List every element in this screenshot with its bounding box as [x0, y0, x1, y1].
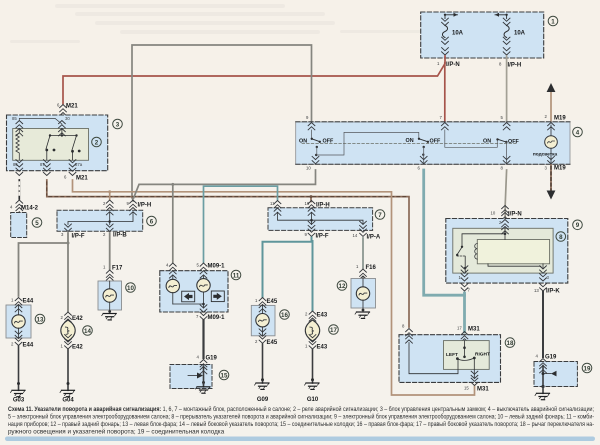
block 6 internal wiring [68, 212, 133, 225]
node G19 left label [197, 355, 218, 374]
svg-text:Схема 11. Указатели поворота и: Схема 11. Указатели поворота и аварийная… [8, 405, 594, 413]
caption text [8, 405, 594, 436]
svg-text:9: 9 [576, 222, 580, 229]
block 18 pin 8 [402, 324, 412, 344]
wire tan M19 with up arrow (power feed) [545, 83, 567, 122]
lamp E44 [12, 305, 25, 338]
svg-text:E45: E45 [267, 340, 278, 346]
svg-text:19: 19 [584, 365, 591, 372]
svg-text:I/P-B: I/P-B [113, 233, 127, 239]
hazard switch mechanical dashed link [302, 143, 518, 145]
item circle 10 [126, 283, 136, 293]
block 6 bottom pins I/P-F I/P-B [61, 224, 127, 240]
block 19 joint connector dashed box [534, 362, 577, 387]
block 18 turn signal stalk dashed box [399, 335, 501, 383]
node M19 bottom with down arrow [545, 165, 567, 200]
lamp in block 12 [356, 277, 369, 312]
side turn lamp E43 (item 17) [305, 320, 319, 341]
svg-text:E44: E44 [23, 299, 34, 305]
svg-text:10: 10 [305, 201, 310, 206]
wire black cluster ground to G19 [202, 320, 204, 358]
item circle 8 [556, 232, 566, 242]
item circle 15 [219, 370, 229, 380]
lamp block 12 F16 [351, 279, 376, 309]
item circle 6 [147, 216, 157, 226]
node F16 [356, 264, 377, 283]
left arrow icon box [182, 291, 195, 302]
wire teal thick: hazard sw pin6 down, right, to M31 junction [424, 170, 465, 332]
rear lamp block 13 E44 [6, 305, 31, 338]
svg-text:10: 10 [491, 211, 496, 216]
block 15 joint connector dashed box [170, 365, 212, 389]
svg-text:2: 2 [95, 139, 99, 146]
block 7 montage block connector dashed box [268, 208, 373, 231]
node G19 right label [536, 354, 558, 373]
wire gray: top run from hazard sw pin 9 to montage block I/P-H pin [132, 45, 312, 201]
svg-text:I/P-H: I/P-H [138, 203, 152, 209]
block 7 top pins [270, 201, 330, 216]
svg-text:M19: M19 [554, 166, 566, 172]
svg-text:I/P-A: I/P-A [367, 235, 381, 241]
svg-text:нация приборов; 12 – правый за: нация приборов; 12 – правый задний фонар… [8, 420, 594, 428]
block 19 internal tap [541, 366, 556, 389]
hazard switch illumination lamp [533, 125, 558, 163]
svg-text:I/P-K: I/P-K [546, 289, 560, 295]
cluster right turn indicator lamp [197, 276, 210, 308]
faint bleed-through smudge top-left [10, 4, 430, 43]
svg-text:M21: M21 [66, 104, 78, 110]
svg-text:10A: 10A [452, 31, 464, 37]
block 9 body control module dashed box [446, 219, 568, 284]
block 6 montage block connector dashed box [57, 210, 143, 231]
svg-text:4: 4 [576, 129, 580, 136]
svg-text:G19: G19 [206, 356, 218, 362]
node E43 bottom [305, 335, 328, 351]
node M31 bottom [464, 371, 489, 392]
svg-text:13: 13 [534, 288, 539, 293]
svg-text:RIGHT: RIGHT [475, 352, 490, 358]
block 9 bottom pins [459, 266, 561, 295]
svg-text:E44: E44 [23, 343, 34, 349]
svg-text:M21: M21 [76, 176, 88, 182]
svg-text:I/P-F: I/P-F [72, 234, 85, 240]
svg-text:12: 12 [339, 283, 346, 290]
node M21 top label [57, 103, 78, 120]
svg-text:86: 86 [13, 162, 18, 167]
fuse F2 10A [495, 13, 526, 55]
svg-text:I/P-H: I/P-H [316, 203, 330, 209]
item circle 16 [280, 310, 290, 320]
svg-text:7: 7 [378, 212, 382, 219]
LEFT RIGHT labels [446, 352, 490, 359]
svg-text:G19: G19 [545, 355, 557, 361]
item circle 14 [83, 326, 93, 336]
svg-text:M09-1: M09-1 [208, 264, 226, 270]
wire black E45 to ground G09 [255, 344, 270, 403]
wire teal cluster right indicator to stalk block 7 pin 11 [204, 186, 278, 262]
svg-text:F17: F17 [112, 266, 123, 272]
side turn lamp E42 (item 14) [61, 320, 75, 341]
item circle 7 [375, 210, 385, 220]
svg-text:18: 18 [507, 340, 514, 347]
node E43 top [305, 311, 328, 325]
node E44 top [11, 298, 34, 312]
svg-text:G09: G09 [257, 397, 269, 403]
svg-text:E45: E45 [267, 299, 278, 305]
block 5 connector dashed box [11, 213, 27, 238]
bottom blue rule [5, 437, 595, 442]
node M14-2 label [10, 200, 39, 215]
node E44 bottom [11, 331, 34, 348]
svg-text:ON: ON [406, 138, 414, 144]
block 8 coil on IC left [475, 244, 478, 260]
block 15 internal tap [188, 366, 205, 384]
svg-text:I/P-H: I/P-H [508, 63, 522, 69]
svg-text:M14-2: M14-2 [21, 206, 39, 212]
block 18 inner switch box [444, 341, 490, 370]
svg-text:30: 30 [65, 116, 70, 121]
relay coil [16, 129, 19, 161]
node E42 bottom [61, 335, 84, 351]
rear lamp block 10 F17 lamp [98, 281, 122, 310]
node F17 [103, 265, 123, 285]
svg-text:15: 15 [221, 372, 228, 379]
svg-text:87a: 87a [75, 162, 83, 167]
hazard switch top pins [306, 115, 554, 130]
svg-text:ружного освещения и указателей: ружного освещения и указателей поворота;… [8, 428, 225, 436]
block 8 internal wiring and switch [457, 228, 543, 272]
svg-text:G03: G03 [13, 398, 25, 404]
wire teal-gray I/P-A down to F16 [362, 238, 364, 268]
right arrow icon box [211, 291, 224, 302]
cluster left turn indicator lamp [166, 276, 179, 304]
svg-text:14: 14 [353, 233, 358, 238]
svg-text:6: 6 [150, 218, 154, 225]
svg-text:M09-1: M09-1 [208, 315, 226, 321]
relay contacts [46, 129, 77, 161]
relay K1 (item 2) inner box [13, 129, 89, 161]
svg-text:85: 85 [12, 116, 17, 121]
svg-text:87: 87 [40, 162, 45, 167]
svg-text:I/P-N: I/P-N [446, 62, 460, 68]
svg-text:1: 1 [551, 18, 555, 25]
svg-text:OFF: OFF [430, 139, 441, 145]
svg-text:8: 8 [559, 234, 563, 241]
block 7 internal wiring [278, 213, 364, 225]
item circle 9 [573, 220, 583, 230]
svg-text:LEFT: LEFT [446, 352, 458, 358]
svg-text:16: 16 [281, 312, 288, 319]
item circle 5 [32, 218, 42, 228]
svg-text:13: 13 [37, 316, 44, 323]
hazard switch contacts sw1 [299, 130, 419, 156]
node E45 bottom [255, 329, 278, 346]
svg-text:14: 14 [84, 328, 91, 335]
fuse box U1 (montage block, item 1) [421, 12, 544, 58]
svg-text:5: 5 [35, 220, 39, 227]
wire gray hazard sw pin10 to cluster and montage I/P-H [134, 170, 316, 262]
node I/P-H fuse output label [499, 62, 521, 69]
wire gray: fuse F2 down to hazard switch pin 5 [506, 56, 508, 122]
hazard switch bottom pins [306, 156, 554, 170]
svg-text:5 – электронный блок управлени: 5 – электронный блок управления электроо… [8, 413, 594, 421]
cluster internal ground bus [173, 303, 204, 305]
svg-text:I/P-N: I/P-N [508, 212, 522, 218]
svg-text:10: 10 [306, 166, 311, 171]
relay pins top chevrons [12, 116, 70, 136]
svg-text:E43: E43 [317, 313, 328, 319]
item circle 12 [337, 281, 347, 291]
svg-text:G04: G04 [62, 398, 74, 404]
wire black I/P-K down to G19 connector [542, 292, 544, 357]
svg-text:M31: M31 [477, 387, 489, 393]
wire gray I/P-F to rear lamp E44 and side lamp E42 [19, 233, 69, 311]
block 9 top pin 2 [499, 220, 508, 234]
svg-text:17: 17 [330, 327, 337, 334]
ground under block 12 [355, 309, 370, 319]
svg-text:3: 3 [116, 121, 120, 128]
item circle 13 [35, 314, 45, 324]
relay pins bottom chevrons [13, 160, 83, 176]
svg-text:E42: E42 [72, 345, 83, 351]
item circle 18 [505, 338, 515, 348]
wire gray hazard sw pin8 down to block 9 I/P-N [505, 170, 506, 218]
svg-text:ON: ON [483, 138, 491, 144]
ground under block 19 [535, 387, 550, 400]
svg-text:10A: 10A [514, 31, 526, 37]
svg-text:10: 10 [127, 285, 134, 292]
node I/P-N fuse output label [437, 61, 460, 68]
wire gray I/P-B to F17 [109, 233, 111, 269]
svg-text:M31: M31 [468, 327, 480, 333]
svg-text:11: 11 [270, 201, 275, 206]
wire tan M21: relay to turn-signal stalk run [73, 180, 475, 395]
block 8 flasher unit inner box [453, 228, 553, 273]
lamp block 16 E45 [251, 305, 275, 335]
svg-text:ON: ON [299, 139, 307, 145]
block 3: central locking control unit, dashed box [7, 115, 108, 171]
svg-text:F16: F16 [366, 265, 377, 271]
wire black E44 to ground G03 [11, 346, 26, 404]
item circle 1 [548, 16, 558, 26]
block 8 IC chip [477, 240, 549, 264]
item circle 4 [573, 127, 583, 137]
node E42 top [61, 312, 84, 326]
svg-text:I/P-F: I/P-F [316, 234, 329, 240]
lamp in block 10 [103, 281, 116, 313]
hazard switch contacts sw2 [406, 138, 441, 163]
relay internal top link wire [19, 118, 62, 124]
node I/P-N into block 9 [491, 206, 522, 220]
node M09-1 bottom label [196, 305, 225, 321]
item circle 19 [582, 363, 592, 373]
svg-text:11: 11 [233, 272, 240, 279]
svg-text:17: 17 [457, 326, 462, 331]
wire teal I/P-F to side lamps E45 E43 [263, 238, 313, 311]
fuse F1 10A [442, 13, 464, 55]
block 18 switch contacts [409, 341, 474, 378]
lamp E45 [256, 305, 269, 335]
svg-text:OFF: OFF [323, 139, 334, 145]
svg-text:OFF: OFF [508, 139, 519, 145]
node M21 bottom label [64, 175, 88, 182]
block 7 bottom pins I/P-F I/P-A [305, 221, 381, 240]
svg-text:15: 15 [464, 386, 469, 391]
svg-text:E43: E43 [317, 345, 328, 351]
item circle 2 [92, 137, 102, 147]
node M31 top into stalk switch [457, 326, 480, 347]
node M09-1 top labels [166, 263, 225, 279]
node E45 top [255, 298, 278, 312]
wire black E42 to ground G04 [60, 350, 75, 404]
svg-text:E42: E42 [72, 316, 83, 322]
wire black E43 to ground G10 [305, 350, 320, 403]
block 6 top pins [103, 200, 151, 215]
item circle 11 [231, 270, 241, 280]
hazard switch contacts sw3 [445, 130, 520, 163]
ground under block 10 [102, 310, 117, 320]
block 11 instrument cluster dashed box [160, 271, 228, 312]
junction dot tan at block 6 pin 2 branch [108, 190, 111, 193]
wire brown-dashed: relay pin to lower brown run [47, 180, 409, 327]
svg-text:G10: G10 [307, 397, 319, 403]
hazard switch block 4 body [296, 122, 570, 165]
item circle 3 [113, 119, 123, 129]
svg-text:M19: M19 [554, 116, 566, 122]
ground under block 15 [196, 383, 211, 394]
wire red: fuse F1 to M21 and hazard switch pin 7 [63, 56, 445, 122]
wire black-white dashed: relay to M14-2 connector [18, 180, 20, 199]
item circle 17 [329, 325, 339, 335]
